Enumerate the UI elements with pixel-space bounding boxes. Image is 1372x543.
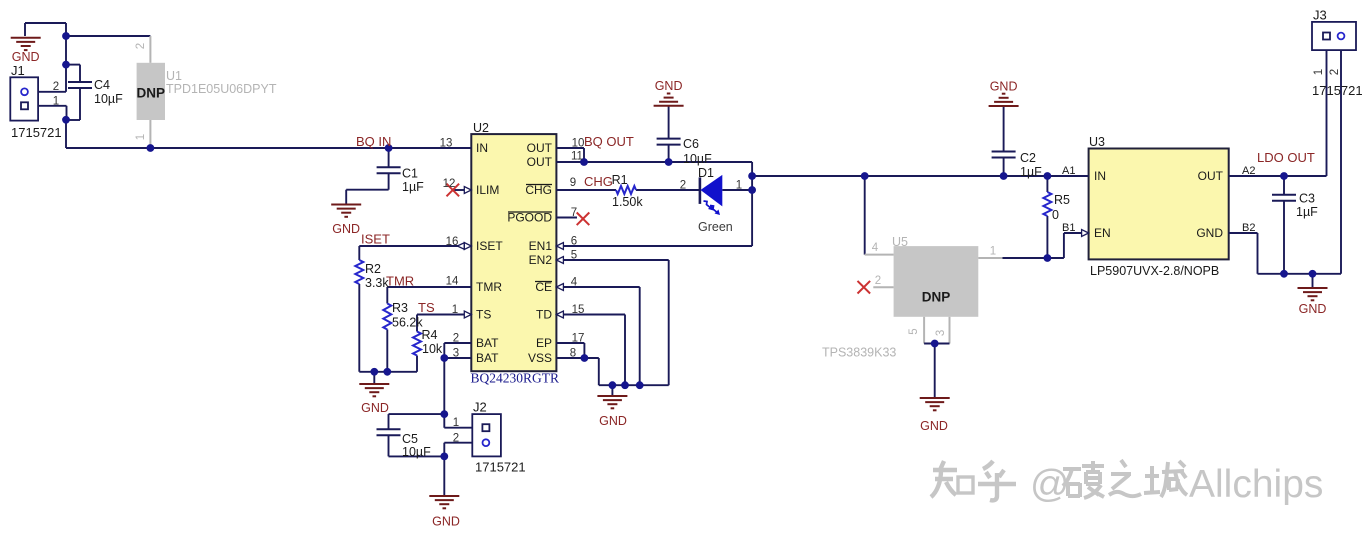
svg-text:4: 4: [872, 242, 879, 254]
svg-text:B1: B1: [1062, 222, 1075, 234]
svg-text:C3: C3: [1299, 192, 1315, 206]
svg-text:4: 4: [571, 277, 578, 289]
svg-text:8: 8: [570, 348, 576, 360]
svg-text:3: 3: [935, 330, 947, 336]
svg-text:1715721: 1715721: [475, 460, 526, 475]
svg-text:13: 13: [440, 138, 453, 150]
svg-text:B2: B2: [1242, 222, 1255, 234]
svg-text:5: 5: [908, 328, 920, 334]
svg-text:CHG: CHG: [584, 174, 613, 189]
svg-text:EN: EN: [1094, 226, 1111, 240]
svg-text:C5: C5: [402, 432, 418, 446]
svg-text:GND: GND: [655, 79, 683, 93]
svg-text:IN: IN: [1094, 169, 1106, 183]
svg-text:7: 7: [571, 207, 577, 219]
svg-text:10µF: 10µF: [402, 445, 431, 459]
svg-text:0: 0: [1052, 208, 1059, 222]
svg-text:Allchips: Allchips: [1189, 463, 1323, 506]
svg-text:1.50k: 1.50k: [612, 195, 643, 209]
svg-text:DNP: DNP: [922, 290, 951, 305]
svg-text:2: 2: [680, 180, 686, 192]
svg-text:3: 3: [453, 348, 459, 360]
svg-text:16: 16: [446, 236, 459, 248]
svg-text:IN: IN: [476, 141, 488, 155]
svg-text:TS: TS: [476, 308, 491, 322]
svg-text:EN2: EN2: [529, 253, 553, 267]
svg-text:2: 2: [875, 275, 881, 287]
svg-text:14: 14: [446, 276, 459, 288]
svg-text:9: 9: [570, 177, 576, 189]
svg-text:TS: TS: [418, 300, 435, 315]
svg-text:GND: GND: [599, 414, 627, 428]
svg-text:U1: U1: [166, 69, 182, 83]
svg-text:OUT: OUT: [527, 141, 553, 155]
svg-text:EN1: EN1: [529, 239, 553, 253]
svg-text:GND: GND: [361, 401, 389, 415]
svg-text:10k: 10k: [422, 342, 443, 356]
svg-text:R1: R1: [612, 173, 628, 187]
svg-text:1: 1: [1313, 69, 1325, 75]
svg-text:1: 1: [53, 96, 59, 108]
svg-text:U3: U3: [1089, 135, 1105, 149]
svg-text:TMR: TMR: [386, 274, 414, 289]
svg-text:A2: A2: [1242, 165, 1255, 177]
svg-text:TPS3839K33: TPS3839K33: [822, 346, 896, 360]
svg-text:ILIM: ILIM: [476, 183, 499, 197]
svg-text:J2: J2: [473, 400, 487, 415]
svg-text:1µF: 1µF: [1020, 165, 1042, 179]
svg-text:1µF: 1µF: [402, 180, 424, 194]
svg-text:17: 17: [572, 333, 585, 345]
svg-text:GND: GND: [432, 515, 460, 529]
svg-text:TD: TD: [536, 308, 552, 322]
svg-text:1715721: 1715721: [1312, 83, 1363, 98]
svg-text:C6: C6: [683, 137, 699, 151]
svg-text:GND: GND: [332, 222, 360, 236]
svg-text:ISET: ISET: [476, 239, 503, 253]
svg-text:BAT: BAT: [476, 351, 499, 365]
svg-text:U5: U5: [892, 235, 908, 249]
svg-text:12: 12: [443, 178, 456, 190]
svg-text:1: 1: [452, 304, 458, 316]
svg-text:5: 5: [571, 250, 577, 262]
svg-text:2: 2: [135, 43, 147, 49]
svg-text:BQ OUT: BQ OUT: [584, 134, 634, 149]
svg-text:BQ IN: BQ IN: [356, 134, 391, 149]
svg-text:R4: R4: [422, 328, 438, 342]
svg-text:11: 11: [571, 151, 583, 163]
svg-text:1715721: 1715721: [11, 125, 62, 140]
svg-text:C1: C1: [402, 167, 418, 181]
svg-text:GND: GND: [1299, 302, 1327, 316]
svg-text:EP: EP: [536, 336, 552, 350]
svg-text:1: 1: [736, 180, 742, 192]
svg-text:6: 6: [571, 236, 577, 248]
svg-text:1: 1: [135, 134, 147, 140]
svg-text:GND: GND: [12, 50, 40, 64]
svg-text:OUT: OUT: [527, 155, 553, 169]
svg-text:LP5907UVX-2.8/NOPB: LP5907UVX-2.8/NOPB: [1090, 264, 1219, 278]
svg-text:R2: R2: [365, 262, 381, 276]
svg-text:10µF: 10µF: [683, 152, 712, 166]
svg-text:GND: GND: [920, 419, 948, 433]
svg-text:A1: A1: [1062, 165, 1075, 177]
svg-text:BQ24230RGTR: BQ24230RGTR: [471, 371, 560, 386]
svg-text:OUT: OUT: [1198, 169, 1224, 183]
svg-text:1: 1: [990, 246, 996, 258]
svg-text:BAT: BAT: [476, 336, 499, 350]
svg-text:10: 10: [572, 138, 585, 150]
svg-text:1: 1: [453, 417, 459, 429]
svg-text:Green: Green: [698, 220, 733, 234]
svg-text:2: 2: [1329, 69, 1341, 75]
svg-text:J1: J1: [11, 63, 25, 78]
svg-text:2: 2: [53, 81, 59, 93]
svg-text:10µF: 10µF: [94, 92, 123, 106]
svg-text:2: 2: [453, 433, 459, 445]
svg-text:VSS: VSS: [528, 351, 552, 365]
svg-text:D1: D1: [698, 166, 714, 180]
svg-text:J3: J3: [1313, 8, 1327, 23]
svg-text:R5: R5: [1054, 193, 1070, 207]
svg-text:2: 2: [453, 333, 459, 345]
svg-text:C4: C4: [94, 78, 110, 92]
svg-text:1µF: 1µF: [1296, 205, 1318, 219]
svg-text:TMR: TMR: [476, 280, 502, 294]
svg-text:LDO OUT: LDO OUT: [1257, 150, 1315, 165]
svg-text:DNP: DNP: [137, 86, 166, 101]
svg-text:TPD1E05U06DPYT: TPD1E05U06DPYT: [166, 82, 277, 96]
svg-text:U2: U2: [473, 121, 489, 135]
svg-text:56.2k: 56.2k: [392, 316, 423, 330]
svg-text:@: @: [1030, 463, 1070, 506]
svg-text:C2: C2: [1020, 151, 1036, 165]
svg-text:15: 15: [572, 304, 585, 316]
svg-text:GND: GND: [1196, 226, 1223, 240]
svg-text:GND: GND: [990, 80, 1018, 94]
svg-text:ISET: ISET: [361, 232, 390, 247]
svg-text:R3: R3: [392, 301, 408, 315]
